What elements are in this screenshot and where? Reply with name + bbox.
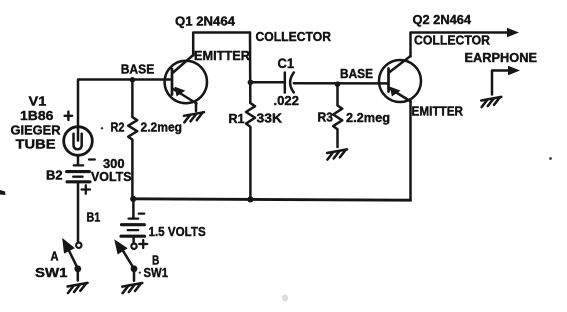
switch SW1 blade A with contact (62, 238, 81, 281)
scan faint blob bottom (282, 295, 288, 302)
ground below switch B (122, 283, 142, 293)
scan dot before SW1 (139, 272, 141, 274)
node collector of Q1 / R1 / C1 (248, 80, 254, 86)
plus sign below 1.5V battery (139, 240, 147, 248)
plus sign below B2 (82, 185, 90, 193)
label Q2 collector (414, 33, 491, 48)
svg-text:V1: V1 (29, 94, 47, 109)
svg-text:COLLECTOR: COLLECTOR (256, 29, 332, 44)
label R1 value (257, 111, 283, 126)
label V1 GIEGER (11, 123, 62, 138)
svg-text:Q2 2N464: Q2 2N464 (413, 12, 472, 27)
svg-text:EMITTER: EMITTER (412, 103, 464, 118)
label Q2 emitter (412, 103, 464, 118)
battery B2 (67, 165, 90, 181)
plus sign at tube anode (65, 112, 73, 120)
label V1 TUBE (16, 136, 56, 151)
node bottom rail / R1 (247, 196, 253, 202)
wire node to capacitor C1 (252, 81, 285, 84)
label SW1 left (35, 265, 68, 280)
svg-text:2.2meg: 2.2meg (346, 110, 390, 125)
label volts (91, 169, 132, 184)
ground below switch A (68, 283, 88, 293)
transistor Q2 2N464 (379, 56, 421, 102)
battery B 1.5 volts (121, 199, 145, 243)
label SW1 right (144, 265, 169, 280)
capacitor C1 .022 (285, 73, 294, 93)
svg-text:SW1: SW1 (35, 265, 68, 280)
svg-text:2.2meg: 2.2meg (141, 119, 183, 134)
svg-text:.022: .022 (274, 93, 300, 108)
label 300 (103, 156, 125, 171)
svg-text:A: A (51, 248, 60, 263)
label R2 value (141, 119, 183, 134)
label Q2 (413, 12, 472, 27)
ground below Q1 emitter (184, 112, 204, 122)
label 1.5 volts (149, 224, 206, 239)
svg-text:B1: B1 (87, 209, 101, 224)
label V1 (29, 94, 47, 109)
ground below R3 (327, 149, 347, 159)
label V1 type (20, 108, 53, 123)
svg-text:C1: C1 (278, 55, 295, 71)
label Q1 collector (256, 29, 332, 44)
transistor Q1 2N464 (165, 55, 207, 111)
svg-text:R1: R1 (229, 111, 245, 126)
svg-text:VOLTS: VOLTS (91, 169, 132, 184)
node Q2 base / R3 (335, 81, 341, 87)
svg-text:EMITTER: EMITTER (194, 48, 251, 63)
wire tube to battery B2 (77, 155, 80, 165)
svg-text:Q1 2N464: Q1 2N464 (175, 14, 236, 29)
label Q2 base (340, 66, 373, 81)
geiger tube V1 (64, 127, 93, 156)
wire C1 to Q2 base (294, 82, 388, 85)
svg-text:B2: B2 (46, 168, 63, 183)
label C1 value (274, 93, 300, 108)
scan blob artifact left edge (0, 190, 6, 195)
svg-text:R3: R3 (318, 110, 334, 125)
wire earphone return with arrow (492, 71, 509, 95)
label R1 (229, 111, 245, 126)
svg-text:R2: R2 (111, 120, 125, 135)
minus sign above 1.5V battery (139, 212, 144, 214)
ground below earphone return (481, 97, 501, 107)
label switch B (152, 252, 159, 267)
label Q1 emitter (194, 48, 251, 63)
label B2 (46, 168, 63, 183)
resistor R1 33K (246, 103, 255, 199)
node bottom rail / R2 / 1.5V battery (130, 196, 136, 202)
resistor R3 2.2meg (333, 84, 342, 147)
arrowhead earphone return (508, 66, 520, 75)
label switch A (51, 248, 60, 263)
svg-text:TUBE: TUBE (16, 136, 56, 151)
resistor R2 2.2meg (128, 80, 137, 199)
scan speck right edge (549, 157, 552, 160)
wire bottom rail (133, 199, 411, 200)
label C1 (278, 55, 295, 71)
label B1 (87, 209, 101, 224)
svg-text:1B86: 1B86 (20, 108, 53, 123)
wire Q2 collector up and right to earphone arrow (411, 33, 509, 57)
wire Q2 emitter down to bottom rail (409, 102, 412, 201)
label R3 value (346, 110, 390, 125)
wire collector column down through node (249, 33, 252, 104)
svg-text:BASE: BASE (121, 61, 155, 76)
label Q1 base (121, 61, 155, 76)
node base of Q1 / R2 junction (130, 77, 136, 83)
svg-text:COLLECTOR: COLLECTOR (414, 33, 491, 48)
label earphone (465, 50, 538, 65)
wire left-rail from tube top up and right to Q1 base (78, 80, 171, 129)
wire Q1 collector to top corner (193, 33, 250, 56)
scan dot before R2 (101, 127, 103, 129)
wire B2 to switch A contact (77, 183, 80, 242)
label Q1 (175, 14, 236, 29)
svg-text:1.5 VOLTS: 1.5 VOLTS (149, 224, 206, 239)
arrowhead collector output (507, 28, 519, 37)
minus sign at tube cathode (89, 158, 95, 160)
label R3 (318, 110, 334, 125)
svg-text:EARPHONE: EARPHONE (465, 50, 538, 65)
switch SW1 blade B with contact (114, 239, 137, 280)
svg-text:33K: 33K (257, 111, 283, 126)
svg-text:SW1: SW1 (144, 265, 169, 280)
label R2 (111, 120, 125, 135)
svg-text:BASE: BASE (340, 66, 373, 81)
